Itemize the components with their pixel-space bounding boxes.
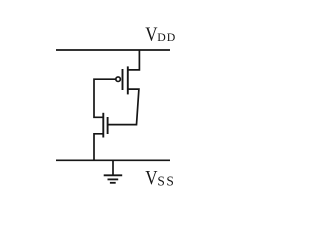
wire PMOS source to VDD	[128, 50, 140, 70]
ground bar 2	[108, 178, 119, 180]
VSS rail	[56, 159, 170, 161]
transistor M2 PMOS channel bar	[127, 66, 129, 94]
ground bar 1	[104, 174, 123, 176]
svg-text:SS: SS	[157, 173, 175, 188]
wire NMOS source to VSS rail	[94, 134, 103, 161]
transistor M2 PMOS gate bubble	[116, 77, 121, 82]
wire PMOS gate to NMOS drain (left)	[94, 79, 116, 117]
ground bar 3	[110, 182, 116, 184]
svg-text:V: V	[145, 23, 158, 46]
wire PMOS drain to NMOS gate (right)	[108, 89, 139, 125]
transistor M1 NMOS channel bar	[102, 113, 104, 138]
transistor M1 NMOS gate bar	[107, 117, 109, 134]
ground stub	[112, 160, 114, 175]
label VSS	[145, 167, 175, 190]
transistor M2 PMOS gate bar	[122, 69, 124, 90]
label VDD	[145, 23, 176, 46]
VDD rail	[56, 49, 170, 51]
svg-text:V: V	[145, 167, 158, 190]
svg-text:DD: DD	[157, 30, 176, 44]
